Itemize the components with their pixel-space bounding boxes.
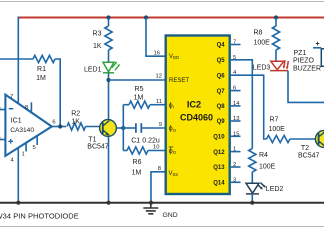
svg-text:+: + <box>315 41 319 48</box>
svg-text:Q13: Q13 <box>213 165 225 171</box>
wire: T1 to oscillator node <box>117 127 124 129</box>
svg-text:RESET: RESET <box>169 78 189 84</box>
resistor R4 <box>249 149 256 173</box>
svg-text:1M: 1M <box>132 170 142 177</box>
IC2 CD4060 body <box>166 36 230 195</box>
svg-text:GND: GND <box>163 212 178 219</box>
piezo buzzer PZ1 box <box>321 49 324 67</box>
wire: R4 to LED2 <box>251 172 253 183</box>
svg-text:12: 12 <box>156 74 162 80</box>
svg-text:R5: R5 <box>135 86 144 93</box>
svg-text:T2: T2 <box>301 145 309 152</box>
svg-text:LED3: LED3 <box>253 64 271 71</box>
wire: R2 to T1 base <box>86 126 103 128</box>
svg-text:PIEZO: PIEZO <box>293 58 315 65</box>
svg-text:T1: T1 <box>88 136 96 143</box>
wire: R8 to LED3 anode <box>275 50 277 61</box>
svg-text:Q6: Q6 <box>217 73 226 79</box>
wire: RC node vertical branch <box>122 105 124 151</box>
wire: C1 to IC2 pin 9 <box>141 127 165 129</box>
svg-text:LED1: LED1 <box>84 66 102 73</box>
svg-text:C1: C1 <box>131 137 140 144</box>
svg-text:100E: 100E <box>259 164 276 171</box>
wire: LED3 cathode to buzzer return <box>287 71 324 103</box>
wire: R1 right lead down to op-amp output node <box>55 59 60 127</box>
svg-text:Q5: Q5 <box>217 58 226 64</box>
op-amp plus sign (pin3) <box>8 139 13 144</box>
svg-text:0.22u: 0.22u <box>142 137 160 144</box>
resistor R1 <box>33 55 55 62</box>
svg-text:R8: R8 <box>254 30 263 37</box>
bottom page border rule <box>0 226 324 228</box>
svg-text:Q9: Q9 <box>217 119 226 125</box>
wire: LED1 cathode to node <box>108 73 110 120</box>
capacitor C1 <box>136 123 141 133</box>
resistor R8 <box>272 26 279 50</box>
LED2 <box>246 183 266 194</box>
junction on ground at Vss <box>149 201 153 205</box>
pin 1 stub <box>25 144 27 152</box>
svg-text:1M: 1M <box>134 95 144 102</box>
junction on ground at T1 emitter <box>106 201 110 205</box>
svg-text:LED2: LED2 <box>266 186 284 193</box>
wire: rail to R3 <box>108 18 110 27</box>
junction on ground rail at pin 4 <box>16 201 20 205</box>
resistor R6 <box>127 147 148 154</box>
junction on supply rail at R8 <box>274 15 278 19</box>
svg-text:R2: R2 <box>71 110 80 117</box>
svg-text:Q12: Q12 <box>213 150 225 156</box>
svg-text:10: 10 <box>153 145 159 151</box>
svg-text:100E: 100E <box>269 126 286 133</box>
wire: non-inverting input pin 3 (off-frame) <box>0 139 6 141</box>
wire: node to IC2 pin 12 RESET <box>109 79 166 81</box>
wire: R7 to T2 base <box>290 138 319 140</box>
buzzer plus terminal lead <box>313 47 321 49</box>
wire: T1 emitter to ground <box>108 137 110 203</box>
junction on supply rail at R3 <box>106 15 110 19</box>
svg-text:16: 16 <box>154 50 160 56</box>
svg-text:1K: 1K <box>71 118 80 125</box>
svg-text:R4: R4 <box>259 152 268 159</box>
junction: LED1 / reset wire / T1 collector <box>106 78 110 82</box>
svg-text:8: 8 <box>158 166 161 172</box>
pin 13 stub <box>230 120 241 122</box>
svg-text:W34 PIN PHOTODIODE: W34 PIN PHOTODIODE <box>0 212 79 221</box>
wire: Q6 pin 4 to R7 <box>230 75 267 139</box>
svg-text:R7: R7 <box>270 117 279 124</box>
svg-text:2: 2 <box>0 107 1 113</box>
wire: op-amp pin 4 down to ground <box>17 148 19 203</box>
wire: supply rail corner down to op-amp pin 7 <box>17 17 19 103</box>
svg-text:8: 8 <box>25 105 28 111</box>
svg-text:6: 6 <box>52 120 55 126</box>
wire: rail to IC2 pin 16 Vdd <box>146 18 166 57</box>
wire: rail to R8 <box>275 18 277 27</box>
svg-text:R3: R3 <box>93 30 102 37</box>
LED3 (red) <box>270 60 289 70</box>
svg-text:9: 9 <box>159 122 162 128</box>
svg-text:Q7: Q7 <box>217 89 226 95</box>
top page border rule <box>0 1 324 3</box>
wire: Q5 pin 5 to R4 chain <box>230 60 253 149</box>
svg-text:1K: 1K <box>93 43 102 50</box>
transistor T2 BC547 <box>315 131 324 148</box>
svg-text:PZ1: PZ1 <box>294 50 307 57</box>
svg-text:7: 7 <box>10 94 13 100</box>
pin 2 stub <box>230 166 241 168</box>
svg-text:CA3140: CA3140 <box>10 127 34 134</box>
wire: IC2 pin 8 Vss to ground <box>151 172 166 203</box>
svg-text:11: 11 <box>156 99 162 105</box>
resistor R5 <box>129 101 150 108</box>
svg-text:BC547: BC547 <box>87 144 109 151</box>
pin 6 stub <box>230 90 241 92</box>
svg-text:Q14: Q14 <box>213 181 225 187</box>
pin 3 stub <box>230 181 241 183</box>
svg-text:1: 1 <box>22 152 25 158</box>
transistor T1 BC547 <box>100 120 117 137</box>
svg-text:Q8: Q8 <box>217 104 226 110</box>
svg-text:R6: R6 <box>133 159 142 166</box>
ground symbol <box>143 203 158 214</box>
svg-text:IC2: IC2 <box>187 99 201 109</box>
wire: branch to R5 <box>123 104 129 106</box>
svg-text:1M: 1M <box>36 75 46 82</box>
op-amp minus sign (pin2) <box>9 108 14 110</box>
svg-text:5: 5 <box>33 145 36 151</box>
resistor R7 <box>267 135 291 142</box>
wire: inverting input pin 2 (from photodiode, off-frame) <box>0 109 6 111</box>
svg-text:100E: 100E <box>254 40 271 47</box>
svg-text:VSS: VSS <box>169 171 179 177</box>
op-amp IC1 CA3140 triangle <box>5 95 51 156</box>
junction on ground at LED2 <box>250 201 254 205</box>
svg-text:R1: R1 <box>37 66 46 73</box>
wire: R6 to IC2 pin 10 <box>148 150 166 152</box>
pin 8 stub <box>30 102 32 112</box>
wire: node to C1 <box>123 127 136 129</box>
junction: oscillator RC node <box>121 126 125 130</box>
positive supply rail (red) <box>19 17 324 19</box>
svg-text:3: 3 <box>0 137 1 143</box>
svg-text:CD4060: CD4060 <box>180 113 213 123</box>
svg-text:Q4: Q4 <box>217 43 226 49</box>
wire: op-amp output pin 6 <box>52 126 66 128</box>
junction: output / R1 feedback <box>58 124 62 128</box>
wire: LED2 cathode to ground <box>251 194 253 203</box>
wire: photodiode node to R1 (left lead, off-frame left) <box>0 58 33 60</box>
wire: R3 to LED1 anode <box>108 50 110 62</box>
wire: R5 to IC2 pin 11 <box>150 104 166 106</box>
resistor R3 <box>105 26 112 50</box>
pin 5 stub <box>36 137 38 146</box>
resistor R2 <box>67 123 86 130</box>
svg-text:Q10: Q10 <box>213 135 225 141</box>
pin 15 stub <box>230 135 241 137</box>
junction on supply rail for IC2 Vdd <box>144 15 148 19</box>
LED1 (green) <box>103 62 120 73</box>
pin 1 stub <box>230 151 241 153</box>
svg-text:VDD: VDD <box>169 54 179 60</box>
pin 14 stub <box>230 105 241 107</box>
pin 7 stub <box>230 44 241 46</box>
svg-text:IC1: IC1 <box>11 117 22 124</box>
svg-text:BUZZER: BUZZER <box>293 66 321 73</box>
ground rail <box>0 202 324 204</box>
svg-text:BC547: BC547 <box>298 152 320 159</box>
wire: branch to R6 <box>123 150 127 152</box>
